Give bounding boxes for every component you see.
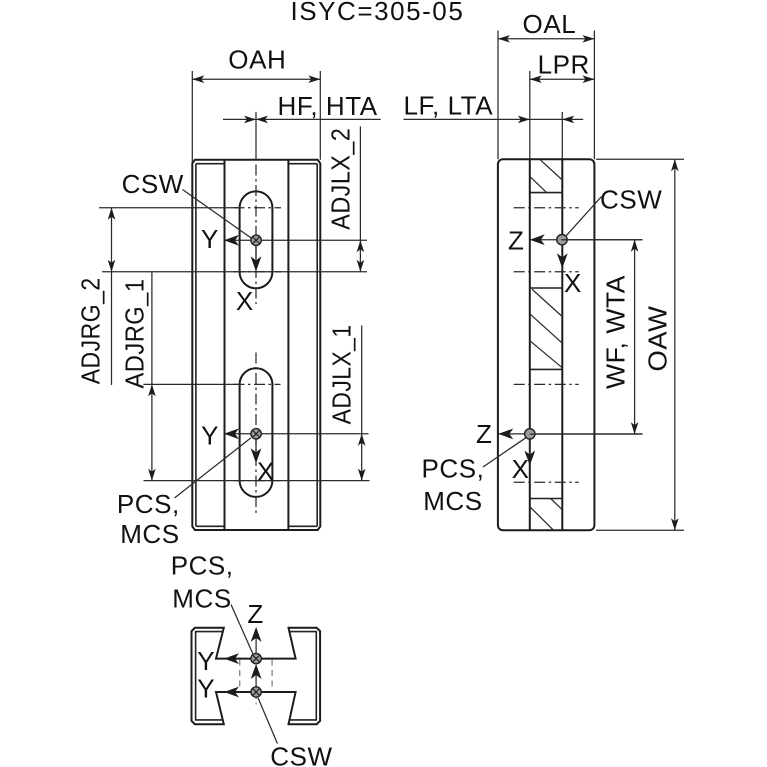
svg-text:ADJLX_2: ADJLX_2	[326, 128, 356, 230]
hatch top segment	[530, 160, 563, 193]
svg-text:X: X	[564, 268, 582, 298]
side view slot1 top edge	[530, 192, 563, 194]
bottom view hidden slot edge right	[271, 660, 273, 692]
svg-text:X: X	[257, 457, 275, 487]
front view right wall inner line	[316, 164, 318, 527]
dimension ADJRG_1	[120, 272, 156, 480]
dimension LF, LTA	[404, 91, 584, 160]
svg-text:OAL: OAL	[523, 9, 577, 39]
bottom Z axis line	[255, 630, 257, 654]
bottom P2 Z arrow	[251, 664, 262, 679]
svg-text:LF, LTA: LF, LTA	[404, 91, 494, 121]
slot centerline upper	[255, 165, 257, 305]
leader CSW side	[566, 197, 602, 237]
svg-text:MCS: MCS	[120, 519, 179, 549]
front view bottom inner edge right segment	[288, 525, 317, 527]
front view web right line	[287, 160, 289, 530]
bottom view left flange inner line	[196, 632, 223, 720]
svg-text:LPR: LPR	[538, 50, 590, 80]
dimension OAW	[596, 159, 684, 530]
svg-text:MCS: MCS	[423, 486, 482, 516]
bottom view hidden slot edge left	[239, 660, 241, 692]
side view outline	[498, 159, 595, 530]
side CSW2 point	[525, 429, 535, 439]
front view left wall inner line	[195, 164, 197, 527]
svg-text:Z: Z	[247, 599, 263, 629]
bottom Z arrow	[251, 627, 262, 642]
hatch bottom segment	[530, 499, 563, 531]
svg-text:PCS,: PCS,	[422, 454, 485, 484]
side view web left line	[529, 159, 531, 530]
leader CSW front	[183, 190, 252, 239]
slot2 Y axis arrow	[224, 428, 239, 439]
dimension LPR	[530, 50, 595, 160]
side view slot2 bottom edge	[530, 498, 563, 500]
slot1 center point CSW	[251, 235, 261, 245]
slot1 bottom arc center dashdot	[234, 271, 282, 273]
svg-text:PCS,: PCS,	[117, 489, 180, 519]
slot2 center point PCS/MCS	[251, 429, 261, 439]
front view top inner edge right segment	[288, 163, 317, 165]
svg-text:OAH: OAH	[228, 45, 286, 75]
front view top inner edge left segment	[196, 163, 225, 165]
extension line y=207.8	[99, 207, 240, 209]
svg-text:Y: Y	[201, 421, 219, 451]
dimension ADJLX_2	[326, 126, 365, 271]
bottom view centerline stub	[255, 698, 257, 708]
slot2 X axis line	[255, 434, 257, 458]
slot2 bottom arc center dashdot	[234, 480, 281, 482]
slot1 X axis arrow	[251, 256, 262, 271]
hatch middle segment	[530, 289, 563, 368]
slot2 Y axis line	[224, 433, 369, 435]
leader PCS side	[483, 437, 527, 467]
side dashdot slot1 bottom	[514, 271, 579, 273]
svg-text:PCS,: PCS,	[171, 551, 234, 581]
side CSW1 Z arrow	[530, 234, 545, 245]
side CSW2 X axis line	[529, 434, 531, 460]
bottom view right flange inner line	[289, 632, 316, 720]
svg-text:MCS: MCS	[172, 583, 231, 613]
bottom Y1 arrow	[224, 653, 239, 664]
slot 2 capsule	[240, 368, 273, 497]
extension line y=480.6	[144, 480, 370, 482]
side view slot2 top edge	[530, 368, 563, 370]
slot2 top arc center dashdot	[234, 383, 281, 385]
slot1 Y axis line	[224, 239, 367, 241]
side dashdot slot2 bottom	[514, 481, 579, 483]
slot1 X axis line	[255, 240, 257, 266]
leader CSW bottom	[258, 698, 277, 744]
leader PCS front	[175, 438, 251, 498]
front view web left line	[224, 160, 226, 530]
svg-text:HF, HTA: HF, HTA	[278, 91, 378, 121]
svg-text:Y: Y	[201, 224, 219, 254]
svg-text:Y: Y	[197, 674, 215, 704]
svg-text:Y: Y	[197, 646, 215, 676]
svg-text:Z: Z	[508, 226, 524, 256]
slot 1 capsule	[240, 191, 273, 288]
side view slot1 bottom edge	[530, 287, 563, 289]
bottom P2 Z axis line	[255, 668, 257, 687]
side CSW2 X arrow	[524, 451, 535, 466]
slot2 X axis arrow	[251, 448, 262, 463]
front view bottom inner edge left segment	[196, 525, 225, 527]
extension line y=384.4	[143, 383, 239, 385]
svg-text:ADJLX_1: ADJLX_1	[327, 324, 357, 424]
side CSW1 X arrow	[557, 253, 568, 268]
side CSW1 point	[557, 235, 567, 245]
svg-text:OAW: OAW	[643, 306, 673, 372]
svg-text:WF, WTA: WF, WTA	[601, 275, 631, 389]
svg-text:X: X	[236, 286, 254, 316]
dimension OAL	[498, 9, 594, 159]
dimension ADJLX_1	[327, 324, 366, 480]
side dashdot slot1 top	[514, 207, 579, 209]
slot centerline lower	[255, 353, 257, 514]
dimension ADJRG_2	[76, 208, 116, 385]
slot1 top arc center dashdot	[234, 207, 282, 209]
front view outline	[192, 160, 320, 530]
dimension WF, WTA	[530, 240, 643, 434]
bottom view outline	[192, 628, 321, 724]
side CSW2 Z axis line	[498, 433, 642, 435]
svg-text:ADJRG_2: ADJRG_2	[76, 277, 106, 384]
bottom Y2 arrow	[224, 687, 239, 698]
side view web right line	[561, 159, 563, 530]
svg-text:CSW: CSW	[270, 742, 332, 767]
svg-text:Z: Z	[476, 419, 492, 449]
leader MCS bottom	[231, 605, 253, 654]
svg-text:X: X	[512, 454, 530, 484]
extension line y=271.8	[102, 271, 367, 273]
svg-text:CSW: CSW	[600, 185, 662, 215]
bottom point 1	[251, 653, 261, 663]
dimension OAH	[192, 45, 320, 164]
svg-text:ISYC=305-05: ISYC=305-05	[290, 0, 464, 26]
side CSW1 Z axis line	[530, 239, 643, 241]
svg-text:ADJRG_1: ADJRG_1	[120, 279, 150, 389]
dimension HF, HTA	[223, 91, 381, 161]
side CSW2 Z arrow	[498, 429, 513, 440]
bottom point 2	[251, 687, 261, 697]
slot1 Y axis arrow	[224, 235, 239, 246]
svg-text:CSW: CSW	[122, 169, 184, 199]
side dashdot slot2 top	[514, 383, 579, 385]
